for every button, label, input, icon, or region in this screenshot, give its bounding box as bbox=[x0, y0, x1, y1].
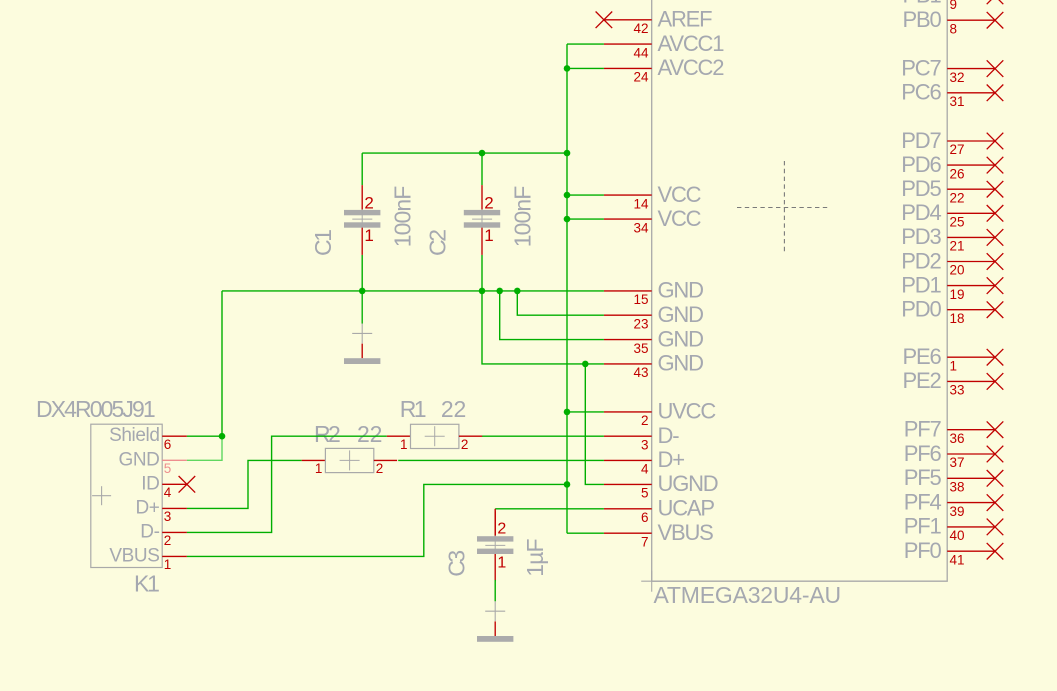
svg-text:D+: D+ bbox=[658, 447, 685, 472]
wire C2 bottom / GND pin43 branch bbox=[482, 255, 604, 364]
pin 43 (GND) of U1, left side bbox=[604, 351, 703, 380]
svg-text:6: 6 bbox=[641, 510, 649, 525]
svg-text:1: 1 bbox=[164, 557, 172, 572]
wire K1 VBUS to VCC vertical bbox=[187, 484, 567, 556]
junction at 567,219 bbox=[564, 216, 571, 223]
junction at 567,412 bbox=[564, 409, 571, 416]
svg-text:D-: D- bbox=[140, 521, 159, 542]
pin 1 (VBUS) of K1 bbox=[109, 545, 187, 572]
pin 34 (VCC) of U1, left side bbox=[604, 206, 702, 235]
ground symbol GND1 bar bbox=[344, 358, 380, 364]
svg-text:8: 8 bbox=[950, 21, 958, 36]
wire AVCC1 to VCC vertical bbox=[567, 43, 604, 45]
pin 6 (UCAP) of U1, left side bbox=[604, 496, 714, 525]
svg-text:4: 4 bbox=[641, 462, 649, 477]
ground symbol GND2 bar bbox=[477, 636, 513, 642]
pin 24 (AVCC2) of U1, left side bbox=[604, 55, 724, 84]
svg-text:K1: K1 bbox=[134, 571, 159, 597]
svg-text:PE6: PE6 bbox=[903, 344, 942, 369]
svg-text:ID: ID bbox=[141, 473, 159, 494]
capacitor C1 lead pin2 bbox=[361, 185, 363, 210]
svg-text:7: 7 bbox=[641, 534, 649, 549]
pin 32 (PC7) of U1, right side bbox=[901, 55, 1003, 84]
wire VCC pin14 stub bbox=[567, 194, 604, 196]
svg-text:C1: C1 bbox=[310, 230, 336, 256]
capacitor C1 lead pin1 bbox=[361, 228, 363, 255]
svg-text:PD4: PD4 bbox=[901, 200, 941, 225]
svg-text:PF1: PF1 bbox=[904, 514, 942, 539]
svg-text:2: 2 bbox=[641, 413, 649, 428]
pin 27 (PD7) of U1, right side bbox=[901, 128, 1003, 157]
wire VBUS pin7 stub bbox=[567, 532, 604, 534]
wire R1 to U1 D- bbox=[482, 435, 604, 437]
svg-text:PF7: PF7 bbox=[904, 417, 942, 442]
junction at 362,291 bbox=[359, 288, 366, 295]
resistor R2 lead pin2 bbox=[374, 459, 397, 461]
svg-text:32: 32 bbox=[950, 70, 965, 85]
svg-text:9: 9 bbox=[950, 0, 958, 12]
pin 40 (PF1) of U1, right side bbox=[904, 514, 1004, 543]
resistor R1 lead pin2 bbox=[459, 435, 482, 437]
pin 21 (PD3) of U1, right side bbox=[901, 224, 1003, 253]
capacitor C2 plates bbox=[464, 210, 500, 228]
svg-text:DX4R005J91: DX4R005J91 bbox=[36, 396, 155, 422]
pin 39 (PF4) of U1, right side bbox=[904, 489, 1004, 518]
svg-text:35: 35 bbox=[633, 341, 648, 356]
svg-text:D-: D- bbox=[658, 423, 680, 448]
wire C3 pin1 to ground bbox=[494, 580, 496, 601]
svg-text:PD0: PD0 bbox=[901, 297, 941, 322]
wire VCC pin34 stub bbox=[567, 218, 604, 220]
pin 1 (PE6) of U1, right side bbox=[903, 344, 1004, 373]
resistor R2 origin cross bbox=[340, 450, 360, 470]
svg-text:14: 14 bbox=[633, 196, 649, 211]
svg-text:18: 18 bbox=[950, 311, 965, 326]
capacitor C1 origin cross bbox=[352, 209, 372, 229]
svg-text:GND: GND bbox=[118, 449, 159, 470]
wire GND pin23 branch bbox=[517, 291, 604, 315]
pin 42 (AREF) of U1, left side bbox=[596, 7, 713, 36]
svg-text:15: 15 bbox=[633, 292, 648, 307]
wire UVCC stub bbox=[567, 411, 604, 413]
IC U1 origin cross bbox=[641, 571, 662, 592]
svg-text:R1: R1 bbox=[400, 396, 426, 422]
junction at 567,195 bbox=[564, 192, 571, 199]
lead C3 pin2 bbox=[494, 509, 496, 537]
junction at 567,153 bbox=[564, 150, 571, 157]
pin 15 (GND) of U1, left side bbox=[604, 278, 703, 307]
svg-text:1: 1 bbox=[484, 226, 493, 245]
svg-text:VCC: VCC bbox=[658, 182, 702, 207]
junction at 585,364 bbox=[582, 361, 589, 368]
ground symbol GND2 : wire bbox=[494, 600, 496, 602]
svg-text:2: 2 bbox=[497, 521, 506, 538]
junction at 567,68 bbox=[564, 65, 571, 72]
svg-text:25: 25 bbox=[950, 215, 965, 230]
svg-text:37: 37 bbox=[950, 455, 965, 470]
svg-text:34: 34 bbox=[633, 220, 649, 235]
svg-text:UVCC: UVCC bbox=[658, 399, 717, 424]
wire top bypass rail bbox=[362, 152, 567, 154]
svg-text:100nF: 100nF bbox=[510, 186, 536, 248]
pin 3 (D+) of K1 bbox=[135, 497, 186, 524]
cursor crosshair bbox=[737, 161, 830, 255]
ground symbol GND1 origin cross bbox=[352, 324, 372, 344]
svg-text:2: 2 bbox=[164, 533, 172, 548]
ground symbol GND2 pin bbox=[494, 621, 496, 636]
connector K1 origin cross bbox=[92, 486, 111, 505]
pin 5 (UGND) of U1, left side bbox=[604, 471, 718, 500]
svg-text:33: 33 bbox=[950, 383, 965, 398]
svg-text:1: 1 bbox=[950, 358, 958, 373]
pin 25 (PD4) of U1, right side bbox=[901, 200, 1003, 229]
ground symbol GND2 origin cross bbox=[485, 601, 505, 621]
svg-text:PB0: PB0 bbox=[903, 7, 942, 32]
svg-text:VBUS: VBUS bbox=[109, 545, 159, 566]
pin 8 (PB0) of U1, right side bbox=[903, 7, 1004, 36]
svg-text:AVCC2: AVCC2 bbox=[658, 55, 725, 80]
svg-text:GND: GND bbox=[658, 326, 704, 351]
svg-text:ATMEGA32U4-AU: ATMEGA32U4-AU bbox=[654, 582, 841, 608]
pin 7 (VBUS) of U1, left side bbox=[604, 520, 713, 549]
pin 2 (UVCC) of U1, left side bbox=[604, 399, 716, 428]
resistor R1 lead pin1 bbox=[387, 435, 411, 437]
svg-text:1: 1 bbox=[400, 437, 408, 452]
svg-text:23: 23 bbox=[633, 316, 648, 331]
wire main VCC vertical bbox=[566, 44, 568, 533]
svg-text:PE2: PE2 bbox=[903, 368, 942, 393]
junction at 482,153 bbox=[479, 150, 486, 157]
wire GND bus drop to Shield bbox=[221, 291, 223, 436]
svg-text:GND: GND bbox=[658, 278, 704, 303]
wire C1 top lead drop bbox=[361, 153, 363, 185]
wire C1 bottom to GND bus bbox=[361, 255, 363, 291]
resistor R2 body bbox=[325, 448, 373, 472]
svg-text:2: 2 bbox=[364, 193, 373, 212]
capacitor C3 lead pin1 bbox=[494, 554, 496, 581]
svg-text:19: 19 bbox=[950, 287, 965, 302]
pin 44 (AVCC1) of U1, left side bbox=[604, 31, 724, 60]
svg-text:26: 26 bbox=[950, 166, 965, 181]
svg-text:PC6: PC6 bbox=[901, 80, 941, 105]
svg-text:PC7: PC7 bbox=[901, 55, 941, 80]
pin 3 (D-) of U1, left side bbox=[604, 423, 679, 452]
svg-text:43: 43 bbox=[633, 365, 648, 380]
svg-text:AVCC1: AVCC1 bbox=[658, 31, 725, 56]
wire GND bus horizontal bbox=[222, 290, 604, 292]
wire K1 D- to R1 bbox=[187, 436, 387, 532]
resistor R2 lead pin1 bbox=[302, 459, 326, 461]
pin 23 (GND) of U1, left side bbox=[604, 302, 703, 331]
svg-text:5: 5 bbox=[641, 486, 649, 501]
svg-text:PD3: PD3 bbox=[901, 224, 941, 249]
svg-text:PD7: PD7 bbox=[901, 128, 941, 153]
pin 26 (PD6) of U1, right side bbox=[901, 152, 1003, 181]
resistor R1 origin cross bbox=[425, 426, 445, 446]
pin 37 (PF6) of U1, right side bbox=[904, 441, 1004, 470]
svg-text:D+: D+ bbox=[135, 497, 159, 518]
svg-text:2: 2 bbox=[461, 437, 469, 452]
svg-text:38: 38 bbox=[950, 480, 965, 495]
pin 19 (PD1) of U1, right side bbox=[901, 272, 1003, 301]
svg-text:39: 39 bbox=[950, 504, 965, 519]
svg-text:4: 4 bbox=[164, 485, 172, 500]
svg-text:PD5: PD5 bbox=[901, 176, 941, 201]
pin 41 (PF0) of U1, right side bbox=[904, 538, 1004, 567]
pin 35 (GND) of U1, left side bbox=[604, 326, 703, 355]
ground symbol GND1 : wire bbox=[361, 291, 363, 324]
resistor R1 body bbox=[411, 424, 459, 448]
svg-text:100nF: 100nF bbox=[390, 186, 416, 248]
wire GND pin35 branch bbox=[500, 291, 604, 340]
svg-text:PF5: PF5 bbox=[904, 465, 942, 490]
junction at 222,436 bbox=[219, 433, 226, 440]
wire UCAP to C3 bbox=[495, 508, 604, 510]
svg-text:2: 2 bbox=[484, 193, 493, 212]
svg-text:GND: GND bbox=[658, 351, 704, 376]
junction at 500,291 bbox=[496, 288, 503, 295]
svg-text:VCC: VCC bbox=[658, 206, 702, 231]
capacitor C2 lead pin2 bbox=[481, 185, 483, 210]
svg-text:22: 22 bbox=[950, 190, 965, 205]
svg-text:3: 3 bbox=[641, 437, 649, 452]
svg-text:PF6: PF6 bbox=[904, 441, 942, 466]
capacitor C3 plates bbox=[477, 536, 513, 554]
capacitor C2 origin cross bbox=[472, 209, 492, 229]
pin 14 (VCC) of U1, left side bbox=[604, 182, 702, 211]
junction at 567,484 bbox=[564, 481, 571, 488]
wire AVCC2 stub bbox=[567, 67, 604, 69]
pin 5 (GND) of K1 bbox=[118, 449, 186, 476]
pin 36 (PF7) of U1, right side bbox=[904, 417, 1004, 446]
wire C2 top lead drop bbox=[481, 153, 483, 185]
svg-text:AREF: AREF bbox=[658, 7, 713, 32]
svg-text:36: 36 bbox=[950, 431, 965, 446]
junction at 482,291 bbox=[479, 288, 486, 295]
svg-text:22: 22 bbox=[441, 396, 466, 422]
svg-text:C3: C3 bbox=[443, 551, 469, 577]
capacitor C1 plates bbox=[344, 210, 380, 228]
svg-text:PD1: PD1 bbox=[901, 272, 941, 297]
junction at 517,291 bbox=[514, 288, 521, 295]
pin 20 (PD2) of U1, right side bbox=[901, 248, 1003, 277]
svg-text:3: 3 bbox=[164, 509, 172, 524]
svg-text:42: 42 bbox=[633, 21, 648, 36]
svg-text:UCAP: UCAP bbox=[658, 496, 715, 521]
svg-text:44: 44 bbox=[633, 45, 649, 60]
svg-text:22: 22 bbox=[357, 421, 382, 447]
svg-text:24: 24 bbox=[633, 70, 649, 85]
svg-text:PF0: PF0 bbox=[904, 538, 942, 563]
pin 33 (PE2) of U1, right side bbox=[903, 368, 1004, 397]
svg-text:41: 41 bbox=[950, 552, 965, 567]
svg-text:40: 40 bbox=[950, 528, 965, 543]
svg-text:1: 1 bbox=[364, 226, 373, 245]
pin 6 (Shield) of K1 bbox=[109, 425, 187, 452]
svg-text:27: 27 bbox=[950, 142, 965, 157]
wire K1 D+ to R2 bbox=[187, 460, 302, 508]
pin 18 (PD0) of U1, right side bbox=[901, 297, 1003, 326]
svg-text:PD6: PD6 bbox=[901, 152, 941, 177]
IC U1 ATMEGA32U4-AU body outline bbox=[652, 0, 948, 581]
pin 22 (PD5) of U1, right side bbox=[901, 176, 1003, 205]
svg-text:20: 20 bbox=[950, 263, 965, 278]
svg-text:2: 2 bbox=[376, 461, 384, 476]
wire R2 to U1 D+ bbox=[398, 459, 604, 461]
svg-text:R2: R2 bbox=[314, 421, 340, 447]
pin 4 (ID) of K1 bbox=[141, 473, 195, 500]
capacitor C3 lead pin2 bbox=[494, 511, 496, 536]
svg-text:31: 31 bbox=[950, 94, 965, 109]
pin 38 (PF5) of U1, right side bbox=[904, 465, 1004, 494]
capacitor C2 lead pin1 bbox=[481, 228, 483, 255]
svg-text:1: 1 bbox=[497, 555, 506, 572]
svg-text:GND: GND bbox=[658, 302, 704, 327]
svg-text:C2: C2 bbox=[425, 230, 451, 256]
svg-text:VBUS: VBUS bbox=[658, 520, 714, 545]
connector K1 DX4R005J91 body outline bbox=[91, 424, 162, 567]
wire K1 GND (highlighted pale) bbox=[187, 436, 222, 460]
pin 4 (D+) of U1, left side bbox=[604, 447, 684, 476]
svg-text:1µF: 1µF bbox=[522, 539, 548, 577]
pin 2 (D-) of K1 bbox=[140, 521, 187, 548]
svg-text:UGND: UGND bbox=[658, 471, 718, 496]
svg-text:Shield: Shield bbox=[109, 425, 159, 446]
svg-text:PD2: PD2 bbox=[901, 248, 941, 273]
svg-text:PF4: PF4 bbox=[904, 489, 942, 514]
wire K1 Shield to GND junction bbox=[187, 435, 222, 437]
wire UGND branch bbox=[585, 364, 604, 485]
capacitor C3 origin cross bbox=[485, 535, 505, 555]
svg-text:21: 21 bbox=[950, 239, 965, 254]
svg-text:5: 5 bbox=[164, 461, 172, 476]
svg-text:6: 6 bbox=[164, 437, 172, 452]
svg-text:1: 1 bbox=[315, 461, 323, 476]
ground symbol GND1 pin bbox=[361, 344, 363, 359]
pin 9 (PB1) of U1, right side bbox=[903, 0, 1004, 12]
pin 31 (PC6) of U1, right side bbox=[901, 80, 1003, 109]
